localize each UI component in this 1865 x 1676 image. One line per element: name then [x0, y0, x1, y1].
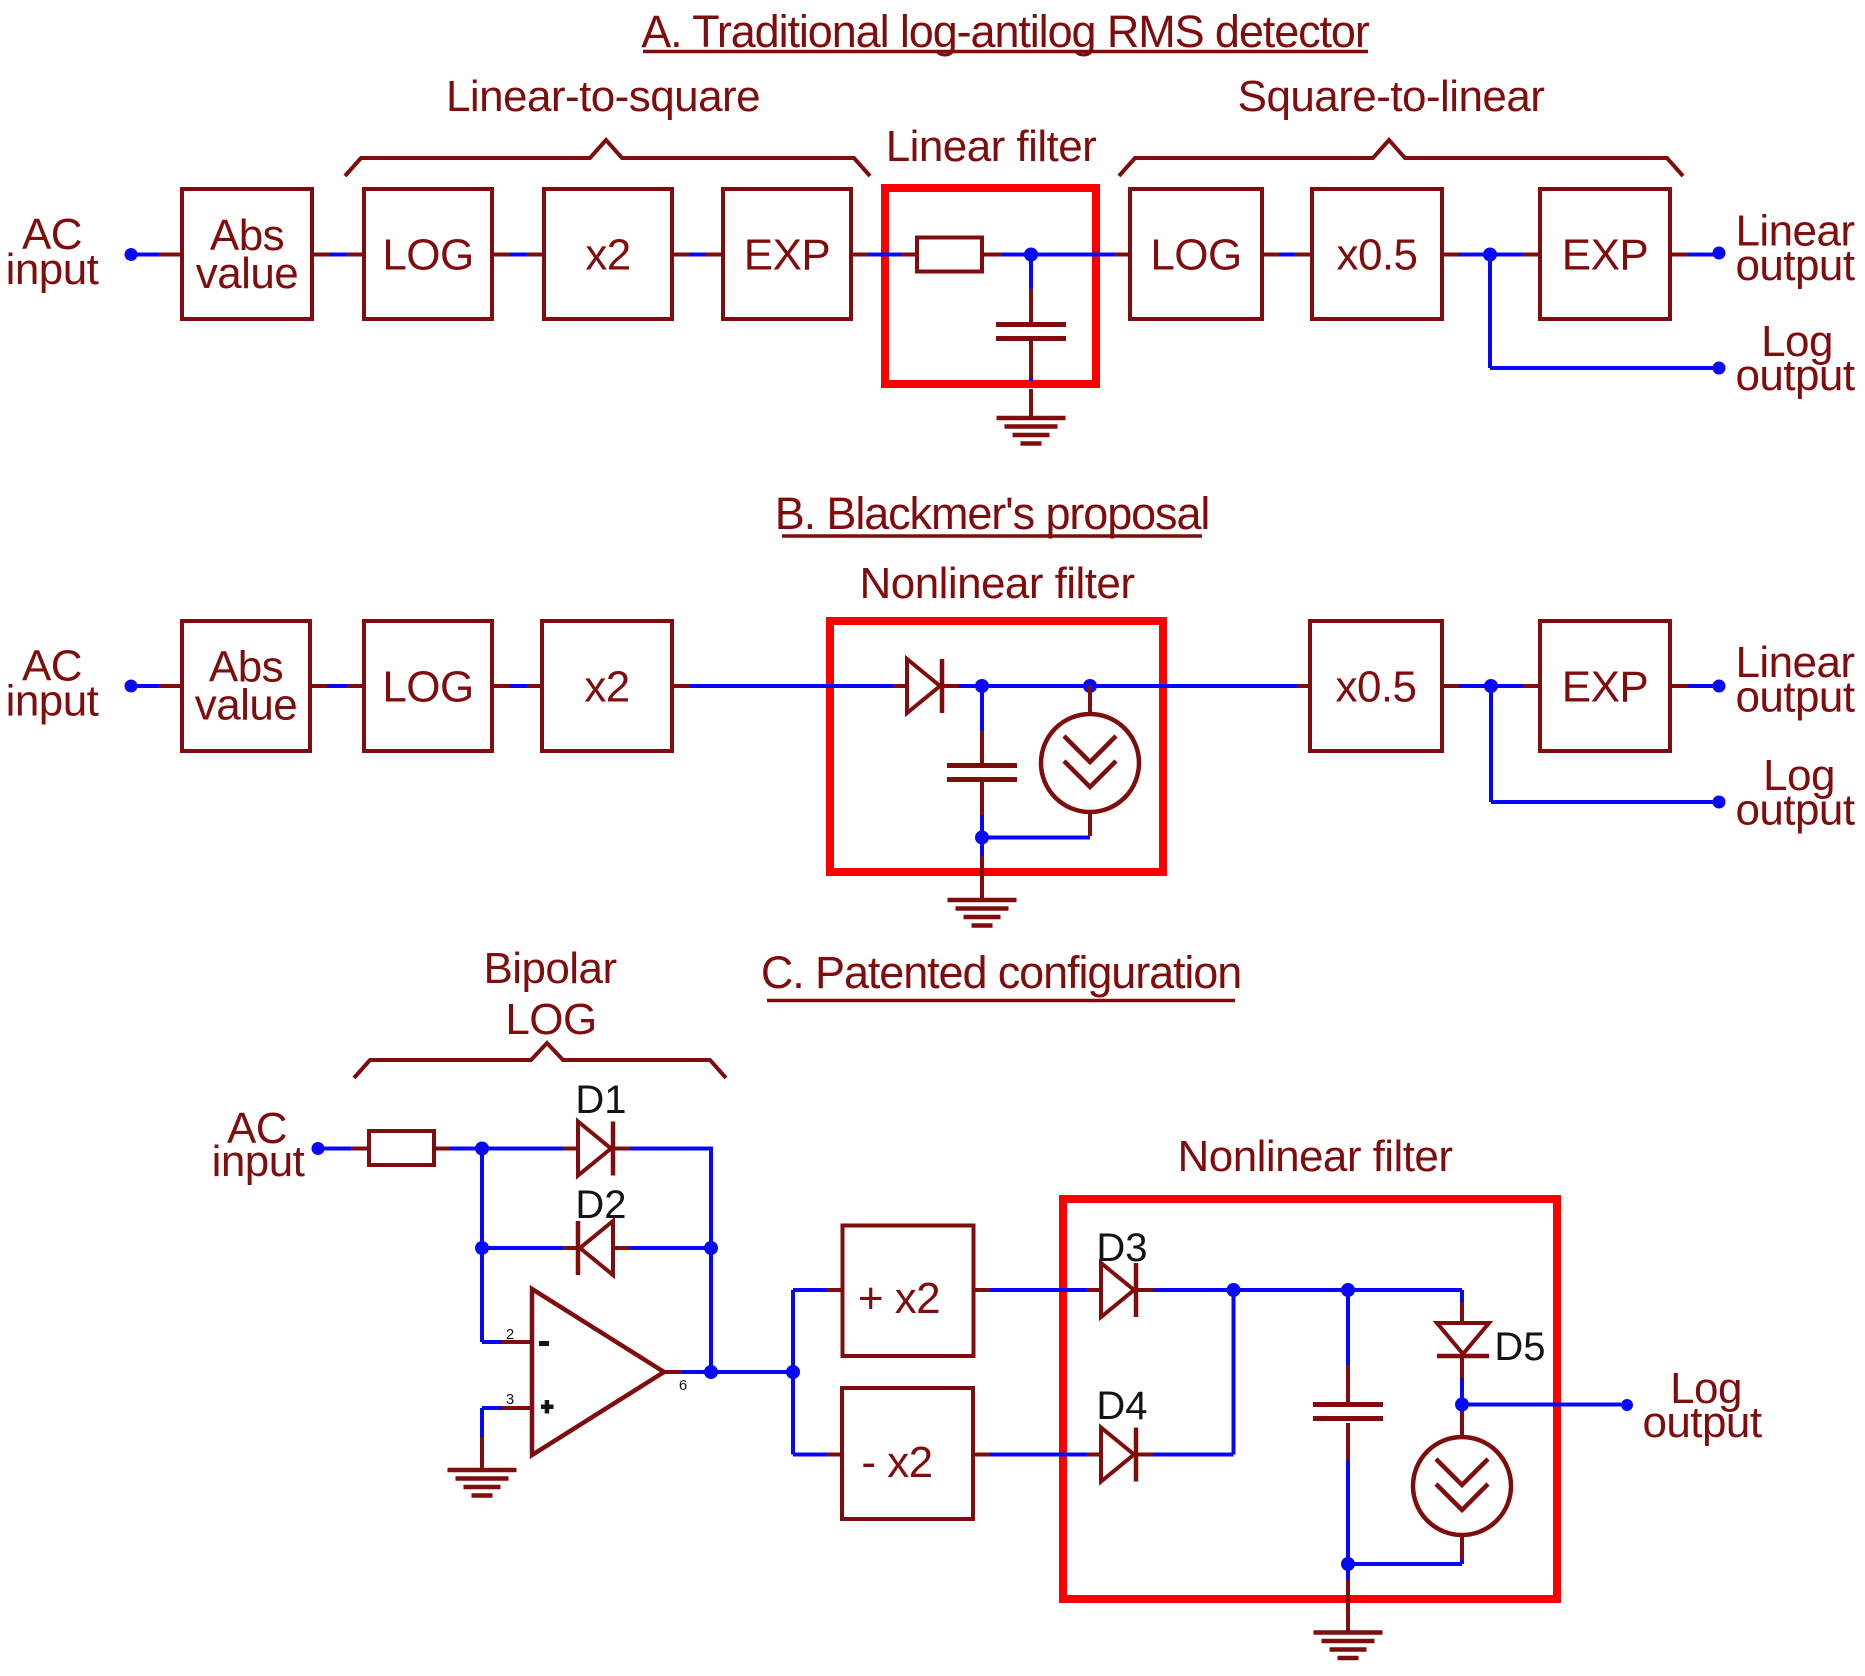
wire branch to +x2	[793, 1288, 827, 1292]
resistor (linear filter, section A)	[917, 238, 982, 272]
capacitor (nonlinear filter, section C)	[1313, 1405, 1383, 1419]
wire capacitor to ground	[1029, 341, 1033, 378]
block LOG (A1)	[364, 189, 492, 319]
wire Abs value to LOG	[314, 253, 329, 257]
node: branch junction	[786, 1365, 800, 1379]
wire EXP to filter resistor	[853, 253, 868, 257]
brace: Linear-to-square group	[345, 140, 870, 176]
red highlight box: Nonlinear filter (section C)	[1063, 1199, 1557, 1599]
block EXP (B)	[1540, 621, 1670, 751]
node: filter node 1 (B)	[975, 679, 989, 693]
node: Linear output (B)	[1713, 680, 1726, 693]
wire EXP to Linear output	[1672, 253, 1688, 257]
block x0.5 (A)	[1312, 189, 1442, 319]
node: D3 output node	[1227, 1283, 1241, 1297]
wire branch to -x2	[793, 1453, 827, 1457]
svg-text:B. Blackmer's proposal: B. Blackmer's proposal	[775, 488, 1210, 539]
block - x2	[842, 1388, 973, 1519]
wire current source bottom to node (B)	[1088, 812, 1092, 836]
wire LOG to x0.5	[1264, 253, 1279, 257]
diode (nonlinear filter, section B)	[907, 659, 942, 713]
wire D2 to right vertical	[613, 1246, 630, 1250]
node: Log output (B)	[1713, 796, 1726, 809]
wire node down to capacitor	[1029, 255, 1033, 290]
svg-text:x2: x2	[585, 231, 630, 280]
svg-text:LOG: LOG	[505, 995, 596, 1044]
svg-text:D5: D5	[1494, 1325, 1545, 1369]
wire EXP to Linear output (B)	[1672, 684, 1688, 688]
wire diode to x0.5 (B)	[944, 684, 959, 688]
wire x0.5 to EXP (B)	[1444, 684, 1459, 688]
capacitor (nonlinear filter, section B)	[947, 766, 1017, 780]
wire resistor to node	[984, 253, 1001, 257]
node: log tap (B)	[1484, 679, 1498, 693]
op-amp U1	[532, 1289, 664, 1455]
svg-text:Bipolar: Bipolar	[483, 944, 616, 993]
block Abs value (B)	[182, 621, 310, 751]
capacitor (linear filter, section A)	[996, 325, 1066, 339]
node: AC input (A)	[125, 248, 138, 261]
node: filter node (A)	[1024, 248, 1038, 262]
wire branch vertical	[791, 1290, 795, 1455]
svg-text:output: output	[1735, 351, 1854, 400]
red highlight box: Linear filter (section A)	[885, 188, 1096, 384]
wire +x2 to D3	[975, 1288, 990, 1292]
svg-text:input: input	[6, 677, 99, 726]
wire D5 to log output node	[1460, 1358, 1464, 1378]
current source (nonlinear filter, section B)	[1041, 714, 1139, 812]
svg-text:output: output	[1735, 241, 1854, 290]
wire resistor to node (C)	[435, 1147, 450, 1151]
wire D4 up to D3 node	[1138, 1453, 1154, 1457]
node: Log output (A)	[1713, 362, 1726, 375]
block EXP (A2)	[1540, 189, 1670, 319]
svg-text:6: 6	[679, 1377, 687, 1394]
svg-text:output: output	[1735, 673, 1854, 722]
block x2 (B)	[542, 621, 672, 751]
block LOG (B)	[364, 621, 492, 751]
wire x0.5 to EXP	[1444, 253, 1459, 257]
svg-text:x0.5: x0.5	[1337, 231, 1418, 280]
wire LOG to x2	[494, 253, 509, 257]
svg-text:output: output	[1735, 786, 1854, 835]
svg-text:Linear-to-square: Linear-to-square	[446, 72, 760, 121]
block EXP (A1)	[723, 189, 851, 319]
svg-text:LOG: LOG	[1150, 231, 1241, 280]
op-amp plus sign	[541, 1405, 554, 1410]
node: Log output (C)	[1621, 1399, 1633, 1411]
svg-text:2: 2	[506, 1326, 514, 1343]
svg-text:value: value	[195, 681, 297, 730]
red highlight box: Nonlinear filter (section B)	[830, 621, 1163, 872]
svg-text:value: value	[196, 249, 298, 298]
svg-text:EXP: EXP	[744, 231, 830, 280]
diode D5	[1437, 1323, 1489, 1356]
svg-text:D1: D1	[575, 1078, 626, 1122]
ground (section A filter)	[997, 418, 1066, 444]
svg-text:Square-to-linear: Square-to-linear	[1238, 72, 1545, 121]
node: filter bottom node (B)	[975, 831, 989, 845]
svg-text:output: output	[1642, 1398, 1761, 1447]
svg-text:C. Patented configuration: C. Patented configuration	[761, 947, 1241, 998]
node: D2 right node	[704, 1241, 718, 1255]
svg-text:D4: D4	[1096, 1384, 1147, 1428]
wire log output (C)	[1462, 1403, 1621, 1407]
node: filter node 2 (B)	[1083, 679, 1097, 693]
diode D1	[578, 1122, 613, 1176]
svg-text:Nonlinear filter: Nonlinear filter	[1178, 1132, 1453, 1181]
brace: Square-to-linear group	[1119, 140, 1683, 176]
node: capacitor top node (C)	[1341, 1283, 1355, 1297]
wire AC input to resistor (C)	[318, 1147, 351, 1151]
wire capacitor to bottom node (B)	[980, 781, 984, 815]
block x0.5 (B)	[1310, 621, 1442, 751]
svg-text:x2: x2	[584, 663, 629, 712]
svg-text:LOG: LOG	[382, 663, 473, 712]
wire capacitor vertical (C)	[1346, 1290, 1350, 1365]
block + x2	[843, 1226, 974, 1357]
node: AC input (B)	[125, 680, 138, 693]
svg-text:Linear filter: Linear filter	[886, 122, 1097, 171]
wire current source stem (C)	[1460, 1405, 1464, 1413]
wire node to D1	[482, 1147, 563, 1151]
node: log tap (A)	[1483, 248, 1497, 262]
diode D4	[1101, 1428, 1136, 1482]
diode D3	[1101, 1263, 1136, 1317]
node: op-amp input node (C)	[475, 1142, 489, 1156]
ground (section B filter)	[948, 900, 1017, 926]
wire node down to capacitor (B)	[980, 686, 984, 731]
svg-text:D2: D2	[575, 1183, 626, 1227]
svg-text:LOG: LOG	[382, 231, 473, 280]
wire right feedback vertical (C)	[709, 1149, 713, 1373]
wire AC input to Abs value	[131, 253, 159, 257]
op-amp minus sign	[539, 1341, 549, 1346]
svg-text:EXP: EXP	[1562, 231, 1648, 280]
wire left vertical to D2 and op-amp (C)	[480, 1149, 484, 1343]
wire node to ground (C)	[1346, 1564, 1350, 1580]
wire node to D5 corner	[1348, 1288, 1462, 1292]
wire op-amp output	[664, 1370, 682, 1374]
svg-text:3: 3	[506, 1391, 514, 1408]
wire Abs to LOG (B)	[312, 684, 327, 688]
svg-text:Nonlinear filter: Nonlinear filter	[860, 559, 1135, 608]
block Abs value (A)	[182, 189, 312, 319]
wire node to ground (B)	[980, 838, 984, 857]
wire -x2 to D4	[975, 1453, 990, 1457]
svg-text:EXP: EXP	[1562, 663, 1648, 712]
wire to Log output (B)	[1489, 686, 1493, 802]
node: op-amp output junction	[704, 1365, 718, 1379]
wire current source top stem (B)	[1088, 686, 1092, 714]
wire op-amp non-inverting input to ground	[482, 1406, 502, 1410]
wire current source bottom (C)	[1460, 1535, 1464, 1560]
wire D5 branch vertical	[1460, 1290, 1464, 1302]
node: Linear output (A)	[1713, 247, 1726, 260]
wire D1 to right corner	[615, 1147, 630, 1151]
wire to Log output (A)	[1488, 255, 1492, 369]
current source (nonlinear filter, section C)	[1413, 1437, 1511, 1535]
wire x2 to diode (B)	[674, 684, 690, 688]
wire op-amp inverting input	[482, 1340, 502, 1344]
brace: Bipolar LOG group	[354, 1043, 726, 1078]
wire node to D2	[482, 1246, 563, 1250]
resistor R (section C input)	[369, 1131, 434, 1165]
block LOG (A2)	[1130, 189, 1262, 319]
node: Log output junction (C)	[1455, 1398, 1469, 1412]
ground (section C filter)	[1314, 1633, 1383, 1659]
svg-text:input: input	[212, 1137, 305, 1186]
svg-text:+ x2: + x2	[858, 1274, 940, 1323]
svg-text:A. Traditional log-antilog RMS: A. Traditional log-antilog RMS detector	[641, 6, 1370, 57]
ground (op-amp non-inverting input)	[448, 1470, 517, 1496]
svg-text:- x2: - x2	[861, 1438, 932, 1487]
node: D2 left node	[475, 1241, 489, 1255]
svg-text:input: input	[6, 245, 99, 294]
wire x2 to EXP	[674, 253, 689, 257]
wire AC input to Abs value (B)	[131, 684, 159, 688]
node: bottom node (C)	[1341, 1557, 1355, 1571]
wire LOG to x2 (B)	[494, 684, 509, 688]
node: AC input (C)	[312, 1142, 325, 1155]
diode D2	[578, 1221, 613, 1275]
wire D3 to node	[1138, 1288, 1153, 1292]
block x2 (A)	[544, 189, 672, 319]
svg-text:x0.5: x0.5	[1336, 663, 1417, 712]
